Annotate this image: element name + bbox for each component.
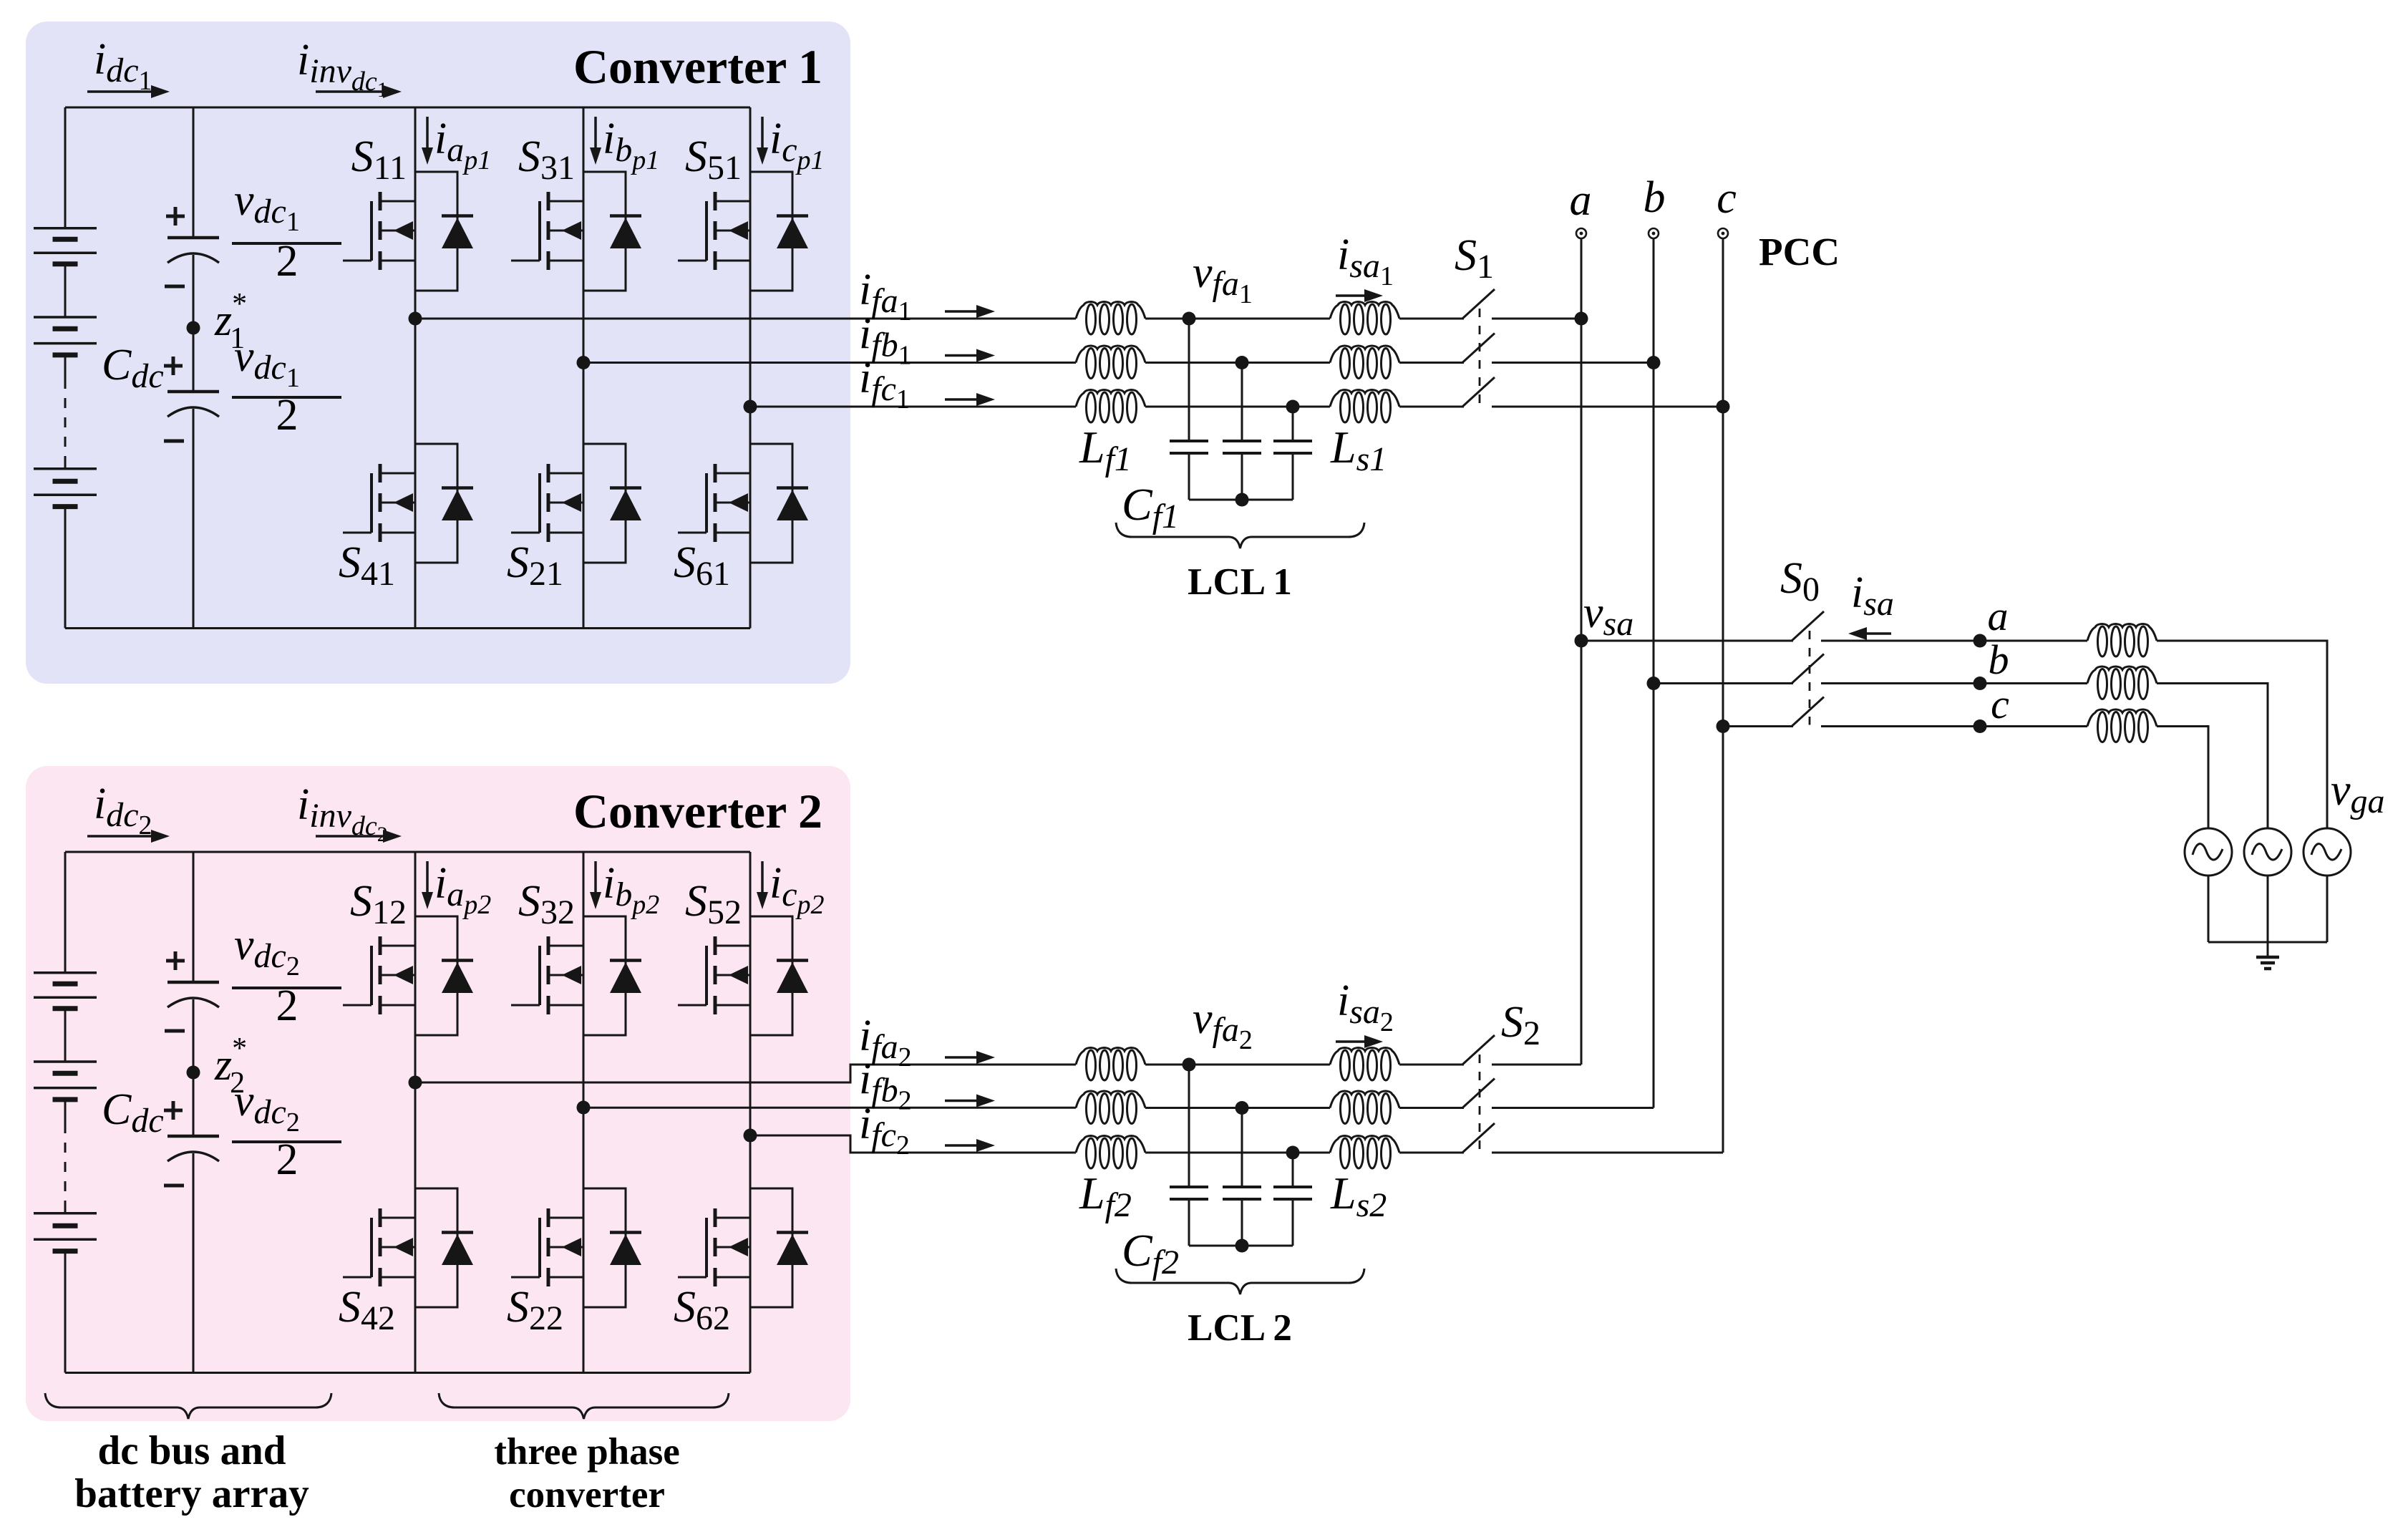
node bus a / converter 1 row a [1575,312,1588,326]
wire grid c to coil [1980,725,2087,727]
wire phase b mid LCL1 [1145,362,1330,364]
svg-text:PCC: PCC [1759,230,1840,273]
diode of S42 [415,1188,473,1307]
inductor Lf1 coil [1076,390,1145,423]
node cap star point LCL1 [1235,493,1249,507]
wire phase a to switch S1 [1399,318,1464,320]
transistor S21 [511,464,583,542]
wire phase c converter 2 to LCL2 [750,1135,1076,1153]
inductor Ls2 coil [1330,1091,1399,1124]
brace three phase converter [439,1393,729,1419]
svg-text:LCL 2: LCL 2 [1188,1307,1292,1349]
node bus b / converter 1 row b [1647,356,1661,369]
terminal b [1649,228,1659,238]
wire dc bus top converter 2 [65,851,750,853]
current arrow i_cp2 [761,861,764,895]
transistor S51 [678,192,750,270]
wire source c to rail [2208,876,2210,942]
wire phase b to switch S1 [1399,362,1464,364]
current arrow i_fb1 [945,354,979,357]
wire dc bus top converter 1 [65,107,750,109]
wire phase b converter 1 to LCL1 [583,362,1076,364]
current arrow i_sa2 [1336,1040,1367,1043]
svg-text:c: c [1717,174,1737,223]
wire phase a S2 to bus a [1492,1064,1581,1066]
battery array converter 2 [34,852,97,1373]
transistor S12 [343,936,415,1014]
wire phase a mid LCL2 [1145,1064,1330,1066]
wire grid b to coil [1980,682,2087,684]
svg-text:LCL 1: LCL 1 [1188,561,1292,603]
diode of S32 [583,916,641,1035]
ac source phase a [2303,828,2351,876]
inductor Lf2 coil [1076,1091,1145,1124]
transistor S32 [511,936,583,1014]
transistor S11 [343,192,415,270]
wire phase b to switch S2 [1399,1107,1464,1109]
wire grid row a to S0 [1581,640,1793,642]
wire phase c S1 to bus c [1492,406,1723,408]
svg-text:2: 2 [276,237,298,286]
capacitor Cdc upper converter 1 [165,207,219,286]
diode of S31 [583,172,641,291]
wire dc link middle converter 1 [193,255,195,392]
wire source bottom rail [2208,941,2327,944]
wire grid phase c to source [2157,727,2208,829]
svg-text:Converter 1: Converter 1 [573,39,822,94]
brace LCL 2 [1116,1269,1364,1294]
node phase c converter 1 [744,400,757,414]
transistor S61 [678,464,750,542]
svg-text:a: a [1988,593,2009,639]
svg-text:S1: S1 [1455,231,1494,286]
svg-text:Converter 2: Converter 2 [573,784,822,838]
inductor Ls1 coil [1330,346,1399,379]
svg-text:isa1: isa1 [1337,231,1394,291]
node phase c cap tap LCL2 [1286,1146,1300,1160]
wire phase b S2 to bus b [1492,1107,1654,1109]
wire source b to rail [2267,876,2269,942]
node cap star point LCL2 [1235,1239,1249,1253]
svg-text:Lf1: Lf1 [1079,422,1132,478]
wire dc link middle converter 2 [193,999,195,1136]
diode of S52 [750,916,808,1035]
node v_sa on bus a [1575,634,1588,648]
node phase b cap tap LCL2 [1235,1101,1249,1115]
node phase b cap tap LCL1 [1235,356,1249,369]
current arrow i_ap2 [426,861,429,895]
wire PCC bus a [1581,238,1583,1065]
switch S1 blade a [1462,289,1495,319]
wire phase c mid LCL1 [1145,406,1330,408]
wire phase leg c converter 2 [749,852,752,1373]
capacitor Cf1 phase b branch [1223,363,1261,500]
current arrow i_ap1 [426,117,429,150]
wire phase a converter 1 to LCL1 [415,318,1076,320]
terminal a [1576,228,1586,238]
node grid c [1974,719,1987,733]
current arrow i_dc2 [87,835,154,838]
current arrow i_bp1 [594,117,597,150]
inductor grid phase b [2087,667,2157,699]
node phase a converter 1 [409,312,422,326]
wire grid row a S0 to node a [1821,640,1980,642]
switch S1 blade b [1462,334,1495,363]
current arrow i_inv_dc1 [316,90,386,93]
inductor Lf1 coil [1076,346,1145,379]
node grid row c on bus c [1717,719,1730,733]
capacitor Cdc lower converter 1 [164,357,219,441]
ac source phase b [2244,828,2291,876]
node grid a [1974,634,1987,648]
capacitor Cdc lower converter 2 [164,1101,219,1186]
current arrow i_sa1 [1336,294,1367,297]
svg-text:2: 2 [276,1135,298,1184]
current arrow i_fa1 [945,310,979,313]
node z1 midpoint [187,321,200,335]
svg-text:vfa2: vfa2 [1193,994,1253,1055]
svg-text:isa2: isa2 [1337,976,1394,1037]
current arrow i_fb2 [945,1100,979,1102]
current arrow i_fa2 [945,1056,979,1059]
wire grid row c S0 to node c [1821,725,1980,727]
switch S1 blade c [1462,377,1495,407]
inductor Ls2 coil [1330,1136,1399,1169]
svg-text:vga: vga [2331,766,2385,820]
svg-text:battery array: battery array [74,1471,309,1516]
inductor Lf1 coil [1076,302,1145,335]
inductor Lf2 coil [1076,1048,1145,1081]
wire grid row b S0 to node b [1821,682,1980,684]
node bus c / converter 1 row c [1717,400,1730,414]
wire phase a to switch S2 [1399,1064,1464,1066]
switch S2 blade b [1462,1079,1495,1108]
svg-text:Cf1: Cf1 [1122,479,1179,535]
svg-text:Ls1: Ls1 [1330,422,1387,478]
wire phase a mid LCL1 [1145,318,1330,320]
wire phase leg a converter 1 [414,107,417,629]
inductor Ls2 coil [1330,1048,1399,1081]
capacitor Cf2 phase b branch [1223,1108,1261,1246]
current arrow i_inv_dc2 [316,835,386,838]
node v_fa1 [1183,312,1196,326]
wire dc bus bottom converter 1 [65,627,750,629]
transistor S62 [678,1208,750,1286]
ac source phase c [2185,828,2232,876]
inductor grid phase c [2087,709,2157,742]
wire cap star rail LCL2 [1189,1245,1293,1247]
wire grid row b to S0 [1654,682,1793,684]
wire phase c to switch S2 [1399,1152,1464,1154]
inductor grid phase a [2087,624,2157,657]
wire dc link upper converter 1 [193,107,195,238]
wire grid a to coil [1980,640,2087,642]
current arrow i_fc1 [945,398,979,401]
switch S1 link [1479,309,1481,405]
transistor S52 [678,936,750,1014]
wire dc link upper converter 2 [193,852,195,982]
node phase a converter 2 [409,1076,422,1090]
converter 1 block background [26,21,850,684]
node phase b converter 1 [577,356,591,369]
svg-text:three phase: three phase [494,1431,680,1473]
node v_fa2 [1183,1058,1196,1072]
current arrow i_cp1 [761,117,764,150]
label vdc2/2 upper [232,921,341,1030]
current arrow i_bp2 [594,861,597,895]
svg-text:S0: S0 [1780,554,1820,609]
wire dc bus bottom converter 2 [65,1372,750,1374]
switch S0 link [1809,631,1811,725]
inductor Lf2 coil [1076,1136,1145,1169]
svg-text:vsa: vsa [1583,588,1633,643]
svg-text:Ls2: Ls2 [1330,1168,1387,1224]
node grid b [1974,677,1987,690]
wire phase c S2 to bus c [1492,1152,1723,1154]
diode of S41 [415,444,473,563]
wire phase a converter 2 to LCL2 [415,1065,1076,1082]
battery array converter 1 [34,107,97,629]
node phase b converter 2 [577,1101,591,1115]
label vdc2/2 lower [232,1077,341,1184]
svg-text:isa: isa [1851,568,1894,623]
current arrow i_fc2 [945,1144,979,1147]
brace dc bus and battery array [45,1393,331,1419]
switch S2 blade c [1462,1123,1495,1153]
inductor Ls1 coil [1330,302,1399,335]
diode of S21 [583,444,641,563]
svg-text:b: b [1989,636,2009,683]
switch S2 link [1479,1055,1481,1151]
transistor S42 [343,1208,415,1286]
diode of S22 [583,1188,641,1307]
wire phase c mid LCL2 [1145,1152,1330,1154]
svg-text:vfa1: vfa1 [1193,248,1253,309]
wire PCC bus c [1722,238,1724,1153]
wire phase b mid LCL2 [1145,1107,1330,1109]
wire phase c to switch S1 [1399,406,1464,408]
node z2 midpoint [187,1066,200,1080]
transistor S31 [511,192,583,270]
node phase c cap tap LCL1 [1286,400,1300,414]
capacitor Cf1 phase c branch [1273,407,1312,500]
wire dc link lower converter 2 [193,1153,195,1373]
diode of S62 [750,1188,808,1307]
current arrow i_dc1 [87,90,154,93]
capacitor Cdc upper converter 2 [165,951,219,1031]
svg-text:b: b [1644,173,1666,222]
diode of S12 [415,916,473,1035]
wire phase a S1 to bus a [1492,318,1581,320]
current arrow i_sa [1864,632,1891,635]
switch S0 blade a [1792,611,1824,641]
svg-text:converter: converter [509,1474,665,1516]
wire cap star rail LCL1 [1189,499,1293,501]
switch S0 blade b [1792,654,1824,684]
node grid row b on bus b [1647,677,1661,690]
transistor S22 [511,1208,583,1286]
capacitor Cf2 phase c branch [1273,1153,1312,1246]
svg-text:Cf2: Cf2 [1122,1225,1179,1281]
label vdc1/2 lower [232,332,341,440]
brace LCL 1 [1116,523,1364,548]
wire phase b S1 to bus b [1492,362,1654,364]
wire phase leg a converter 2 [414,852,417,1373]
diode of S11 [415,172,473,291]
terminal c [1718,228,1728,238]
node phase c converter 2 [744,1129,757,1143]
switch S2 blade a [1462,1035,1495,1065]
wire grid phase b to source [2157,684,2268,829]
diode of S51 [750,172,808,291]
wire dc link lower converter 1 [193,409,195,629]
wire grid phase a to source [2157,641,2327,828]
switch S0 blade c [1792,697,1824,727]
transistor S41 [343,464,415,542]
ground [2256,942,2279,969]
svg-text:c: c [1991,681,2009,727]
wire source a to rail [2326,876,2329,942]
wire phase leg c converter 1 [749,107,752,629]
wire grid row c to S0 [1723,725,1793,727]
wire phase b converter 2 to LCL2 [583,1107,1076,1109]
svg-text:dc bus and: dc bus and [98,1428,286,1473]
converter 2 block background [26,766,850,1421]
diode of S61 [750,444,808,563]
svg-text:2: 2 [276,391,298,440]
wire phase c converter 1 to LCL1 [750,406,1076,408]
svg-text:2: 2 [276,981,298,1030]
label vdc1/2 upper [232,176,341,286]
wire phase leg b converter 1 [583,107,585,629]
svg-text:Lf2: Lf2 [1079,1168,1132,1224]
capacitor Cf1 phase a branch [1170,319,1208,500]
svg-text:S2: S2 [1501,998,1540,1052]
wire phase leg b converter 2 [583,852,585,1373]
svg-text:a: a [1570,176,1592,225]
wire PCC bus b [1653,238,1655,1108]
capacitor Cf2 phase a branch [1170,1065,1208,1246]
inductor Ls1 coil [1330,390,1399,423]
